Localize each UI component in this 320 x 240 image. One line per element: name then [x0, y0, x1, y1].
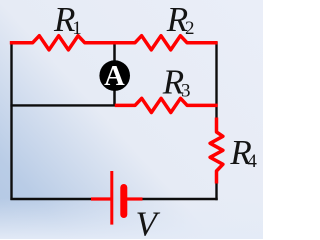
battery V: short thick plate (negative)	[120, 188, 127, 215]
svg-text:A: A	[104, 61, 125, 92]
wire: left vertical branch	[10, 42, 12, 200]
label R3	[162, 63, 191, 102]
wire: middle horizontal (left node to ammeter branch)	[10, 104, 116, 106]
svg-text:3: 3	[181, 81, 191, 102]
svg-text:4: 4	[247, 151, 257, 172]
wire: ammeter bottom lead	[113, 90, 116, 106]
label R4	[229, 133, 257, 172]
wire: bottom horizontal right segment	[142, 198, 218, 200]
resistor R2	[115, 36, 218, 50]
resistor R4	[210, 118, 223, 184]
svg-text:1: 1	[72, 18, 82, 39]
battery V: long plate (positive)	[110, 171, 113, 225]
wire: bottom horizontal left segment	[10, 198, 92, 200]
wire: ammeter top lead	[113, 42, 116, 61]
svg-text:V: V	[136, 204, 161, 239]
wire: battery left red lead	[91, 197, 111, 200]
resistor R1	[10, 36, 115, 50]
wire: right vertical upper (between R2/R3 junction and R4)	[215, 42, 217, 119]
wire: battery right red lead	[127, 197, 143, 200]
label R1	[53, 0, 82, 39]
ammeter A (meter body)	[99, 60, 130, 91]
svg-text:2: 2	[185, 18, 195, 39]
wire: right vertical lower	[215, 183, 217, 200]
resistor R3	[115, 98, 218, 112]
label R2	[166, 0, 195, 39]
